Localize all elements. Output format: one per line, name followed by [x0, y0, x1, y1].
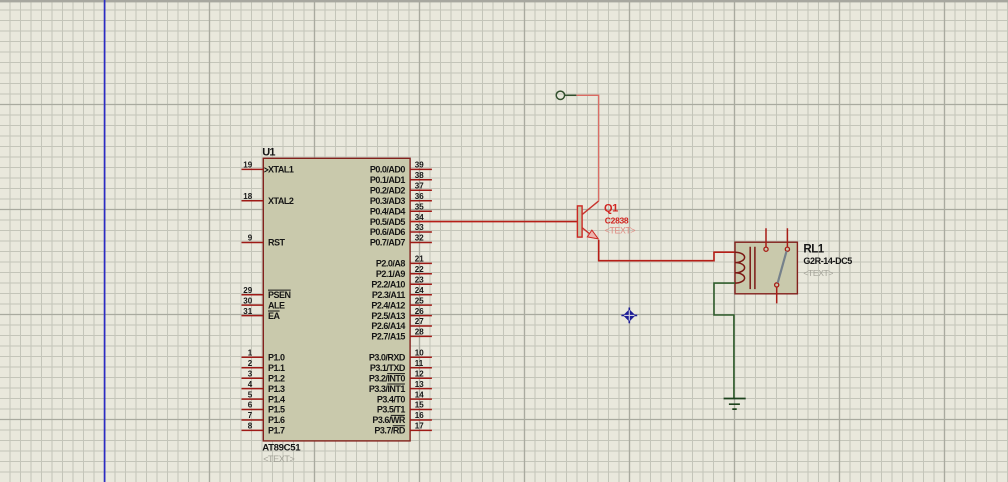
svg-text:EA: EA — [268, 311, 281, 321]
svg-text:24: 24 — [415, 286, 424, 295]
svg-text:39: 39 — [415, 161, 424, 170]
svg-text:P1.0: P1.0 — [268, 353, 285, 363]
svg-text:10: 10 — [415, 349, 424, 358]
svg-text:4: 4 — [248, 380, 253, 389]
svg-text:13: 13 — [415, 380, 424, 389]
svg-text:P3.6/WR: P3.6/WR — [372, 415, 406, 425]
svg-text:P0.4/AD4: P0.4/AD4 — [370, 206, 406, 216]
svg-text:31: 31 — [243, 307, 252, 316]
svg-text:P2.3/A11: P2.3/A11 — [372, 290, 406, 300]
svg-text:P1.2: P1.2 — [268, 373, 285, 383]
svg-text:P3.2/INT0: P3.2/INT0 — [369, 373, 406, 383]
svg-text:P2.6/A14: P2.6/A14 — [371, 321, 405, 331]
svg-text:18: 18 — [243, 192, 252, 201]
svg-text:P0.5/AD5: P0.5/AD5 — [370, 217, 406, 227]
svg-text:35: 35 — [415, 202, 424, 211]
svg-text:32: 32 — [415, 234, 424, 243]
svg-text:PSEN: PSEN — [268, 290, 291, 300]
svg-text:25: 25 — [415, 296, 424, 305]
svg-text:6: 6 — [248, 401, 253, 410]
svg-text:28: 28 — [415, 328, 424, 337]
svg-text:G2R-14-DC5: G2R-14-DC5 — [803, 256, 852, 266]
svg-text:P1.1: P1.1 — [268, 363, 285, 373]
svg-text:P1.7: P1.7 — [268, 426, 285, 436]
svg-text:P0.6/AD6: P0.6/AD6 — [370, 227, 406, 237]
svg-text:P3.5/T1: P3.5/T1 — [377, 405, 406, 415]
svg-text:P2.5/A13: P2.5/A13 — [371, 311, 405, 321]
svg-text:9: 9 — [248, 234, 253, 243]
svg-text:P2.2/A10: P2.2/A10 — [371, 279, 405, 289]
svg-text:8: 8 — [248, 422, 253, 431]
svg-text:P1.4: P1.4 — [268, 394, 285, 404]
svg-text:<TEXT>: <TEXT> — [803, 268, 833, 278]
svg-text:P3.7/RD: P3.7/RD — [374, 426, 406, 436]
svg-text:P0.0/AD0: P0.0/AD0 — [370, 165, 406, 175]
svg-text:P3.1/TXD: P3.1/TXD — [370, 363, 406, 373]
svg-text:21: 21 — [415, 255, 424, 264]
svg-text:11: 11 — [415, 359, 424, 368]
svg-text:2: 2 — [248, 359, 253, 368]
svg-text:14: 14 — [415, 390, 424, 399]
svg-text:22: 22 — [415, 265, 424, 274]
svg-text:23: 23 — [415, 275, 424, 284]
svg-text:27: 27 — [415, 317, 424, 326]
svg-text:7: 7 — [248, 411, 253, 420]
svg-text:37: 37 — [415, 182, 424, 191]
svg-text:12: 12 — [415, 369, 424, 378]
svg-text:P0.7/AD7: P0.7/AD7 — [370, 238, 406, 248]
svg-text:RL1: RL1 — [803, 244, 824, 256]
svg-text:36: 36 — [415, 192, 424, 201]
svg-text:16: 16 — [415, 411, 424, 420]
svg-text:P2.4/A12: P2.4/A12 — [371, 300, 405, 310]
svg-text:38: 38 — [415, 171, 424, 180]
svg-text:33: 33 — [415, 223, 424, 232]
svg-text:ALE: ALE — [268, 300, 285, 310]
svg-text:P3.3/INT1: P3.3/INT1 — [369, 384, 406, 394]
svg-text:P3.0/RXD: P3.0/RXD — [369, 353, 406, 363]
svg-text:30: 30 — [243, 296, 252, 305]
svg-text:P1.5: P1.5 — [268, 405, 285, 415]
svg-text:P0.3/AD3: P0.3/AD3 — [370, 196, 406, 206]
svg-text:Q1: Q1 — [604, 202, 618, 214]
svg-text:3: 3 — [248, 369, 253, 378]
svg-text:RST: RST — [268, 238, 286, 248]
svg-text:15: 15 — [415, 401, 424, 410]
svg-text:17: 17 — [415, 422, 424, 431]
svg-text:P2.7/A15: P2.7/A15 — [371, 332, 405, 342]
svg-text:5: 5 — [248, 390, 253, 399]
svg-text:P0.2/AD2: P0.2/AD2 — [370, 186, 406, 196]
svg-text:19: 19 — [243, 161, 252, 170]
svg-text:26: 26 — [415, 307, 424, 316]
svg-text:1: 1 — [248, 349, 253, 358]
svg-text:U1: U1 — [262, 146, 275, 158]
svg-text:34: 34 — [415, 213, 424, 222]
svg-text:<TEXT>: <TEXT> — [263, 454, 294, 464]
svg-text:P2.1/A9: P2.1/A9 — [376, 269, 406, 279]
svg-text:XTAL2: XTAL2 — [268, 196, 294, 206]
svg-text:29: 29 — [243, 286, 252, 295]
svg-text:P1.3: P1.3 — [268, 384, 285, 394]
svg-text:P0.1/AD1: P0.1/AD1 — [370, 175, 406, 185]
svg-text:P3.4/T0: P3.4/T0 — [377, 394, 406, 404]
svg-text:XTAL1: XTAL1 — [268, 165, 294, 175]
svg-text:P1.6: P1.6 — [268, 415, 285, 425]
svg-text:<TEXT>: <TEXT> — [605, 225, 636, 235]
svg-text:C2838: C2838 — [605, 216, 629, 226]
svg-text:AT89C51: AT89C51 — [262, 443, 301, 454]
svg-text:P2.0/A8: P2.0/A8 — [376, 259, 406, 269]
